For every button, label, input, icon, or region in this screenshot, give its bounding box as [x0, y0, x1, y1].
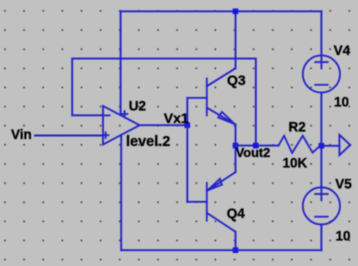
svg-text:10: 10 — [334, 95, 349, 110]
svg-text:Vout2: Vout2 — [236, 145, 271, 160]
wire bottom rail — [121, 249, 321, 251]
svg-text:V4: V4 — [334, 43, 351, 58]
wire Q4 emitter from Vout2 — [235, 146, 237, 173]
voltage source V5 — [303, 187, 340, 224]
output port arrow — [339, 135, 350, 155]
node junction bottom rail — [233, 247, 239, 253]
wire feedback loop — [72, 59, 256, 146]
node Vout2 junction — [233, 143, 239, 149]
voltage source V4 — [303, 55, 340, 92]
wire to output port — [321, 145, 339, 147]
node supply mid junction — [319, 143, 325, 149]
wire op-amp V+ supply drop — [120, 11, 122, 114]
svg-text:level.2: level.2 — [126, 134, 170, 150]
svg-text:V5: V5 — [335, 177, 352, 192]
wire V5 bottom to rail — [320, 224, 322, 250]
resistor R2 — [279, 136, 321, 153]
wire op-amp output to Vx1 — [140, 124, 188, 126]
wire Q4 collector drop — [235, 232, 237, 251]
svg-text:Vx1: Vx1 — [164, 110, 189, 126]
op-amp U2 — [103, 106, 140, 145]
transistor Q4 — [187, 172, 235, 232]
wire Q3 emitter drop to Vout2 — [235, 125, 237, 146]
svg-text:R2: R2 — [289, 120, 306, 135]
wire top-right drop to V4 — [320, 11, 322, 55]
wire op-amp V- supply drop — [120, 135, 122, 250]
wire Q3 collector drop — [235, 11, 237, 68]
svg-text:10: 10 — [336, 229, 351, 244]
wire R2 to supply node — [320, 145, 322, 147]
wire Vin input — [35, 135, 103, 137]
node feedback junction — [253, 143, 259, 149]
wire top rail — [121, 10, 322, 12]
transistor Q3 — [187, 68, 235, 124]
wire V4 bottom to mid node — [320, 93, 322, 146]
svg-text:U2: U2 — [129, 99, 146, 114]
wire mid node to V5 top — [320, 146, 322, 188]
svg-text:Vin: Vin — [11, 127, 32, 142]
node junction top rail — [233, 9, 239, 15]
svg-text:Q3: Q3 — [227, 72, 246, 88]
wire Vout2 to R2 — [236, 145, 279, 147]
svg-text:10K: 10K — [283, 156, 308, 171]
svg-text:Q4: Q4 — [227, 206, 246, 221]
node Vx1 junction — [185, 122, 191, 128]
wire common base vertical — [186, 98, 188, 202]
